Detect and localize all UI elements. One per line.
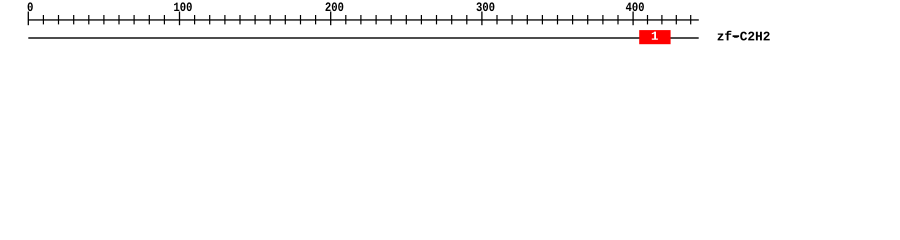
- ruler label 400: [626, 2, 644, 11]
- ruler label 100: [174, 2, 192, 11]
- ruler label 200: [326, 2, 344, 11]
- domain number 1: [652, 32, 658, 40]
- domain name label zf-C2H2: [718, 31, 770, 41]
- ruler major tick 0: [28, 12, 29, 26]
- hyphen extension in domain name: [733, 35, 740, 37]
- ruler major tick 400: [632, 12, 633, 26]
- ruler axis line: [28, 19, 699, 20]
- ruler major tick 200: [330, 12, 331, 26]
- sequence line: [28, 37, 698, 38]
- ruler major tick 300: [481, 12, 482, 26]
- ruler label 300: [477, 2, 495, 11]
- domain box zf-C2H2 (region 1): [639, 30, 670, 44]
- ruler label 0: [28, 2, 33, 11]
- ruler minor ticks: [43, 15, 692, 24]
- ruler major tick 100: [179, 12, 180, 26]
